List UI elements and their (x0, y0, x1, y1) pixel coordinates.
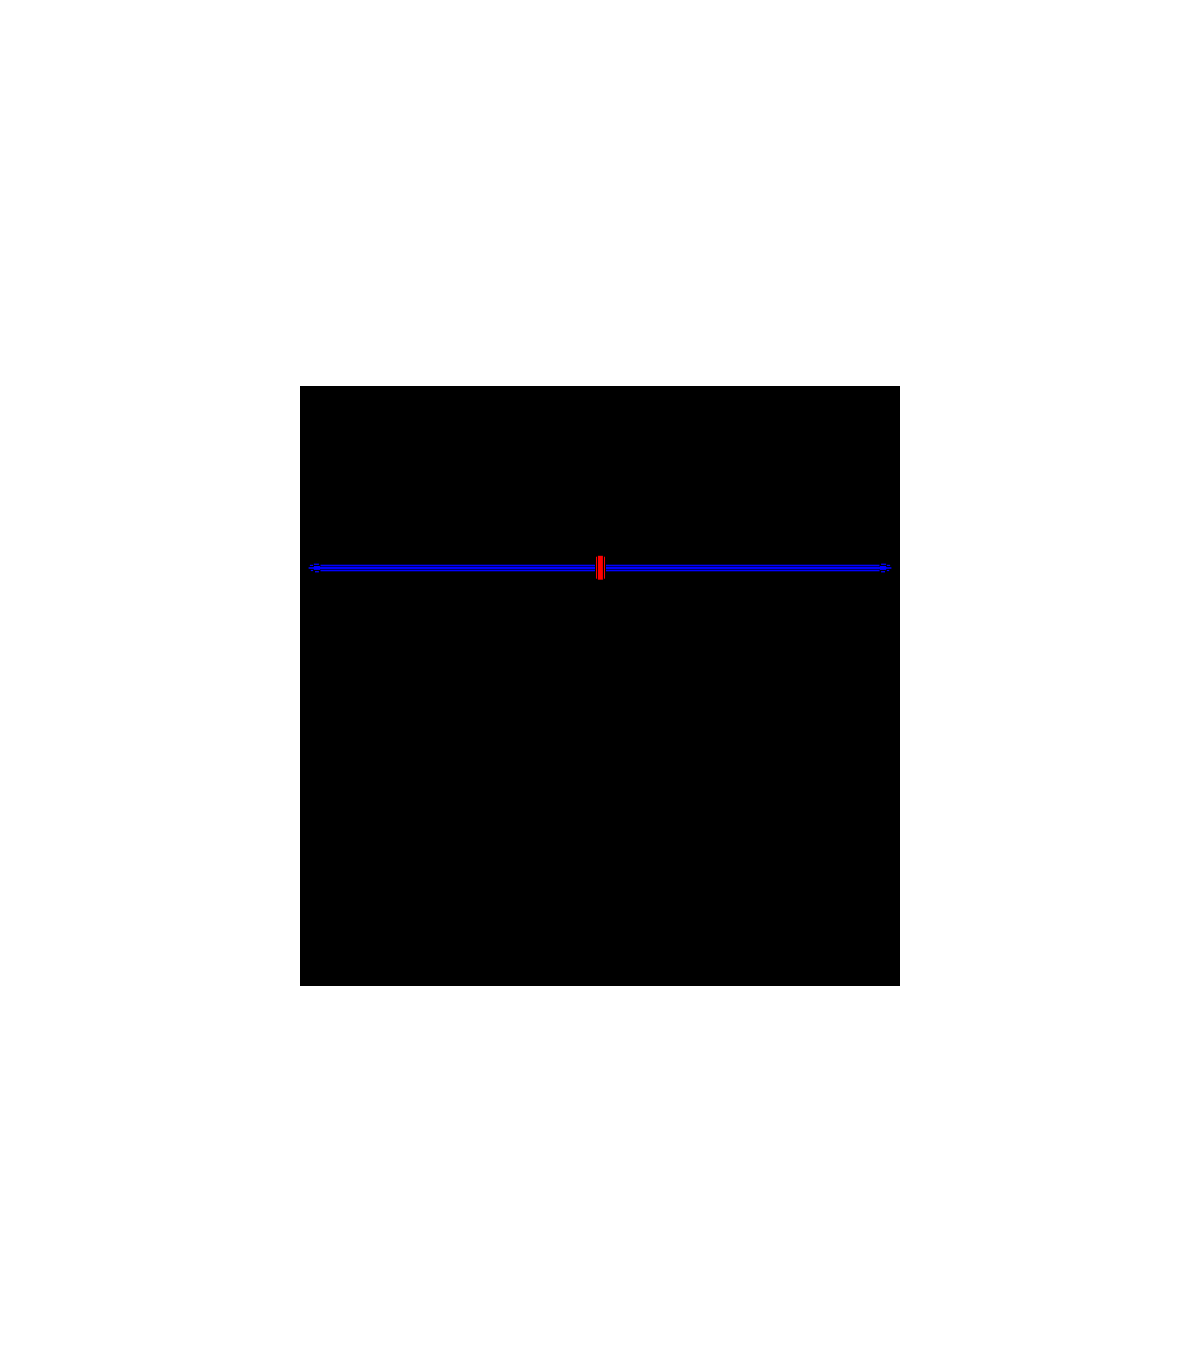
wire W1 upper outline (left half) (321, 565, 596, 567)
wire W1 axis conductor (left half) (314, 567, 596, 570)
excitation source marker body (red bar at feed point) (598, 556, 603, 580)
wire end 1 arrowhead (left, pointing left) (309, 564, 320, 573)
wire end 2 arrowhead (right, pointing right) (880, 564, 891, 573)
wire W1 lower outline (left half) (321, 570, 596, 571)
excitation source marker left whisker (596, 557, 597, 579)
wire W1 upper outline (right half) (606, 565, 880, 567)
wire W1 lower outline (right half) (606, 570, 880, 571)
excitation source marker right whisker (604, 557, 605, 579)
plot background (black viewport) (300, 386, 900, 986)
wire W1 axis conductor (right half) (606, 567, 887, 570)
